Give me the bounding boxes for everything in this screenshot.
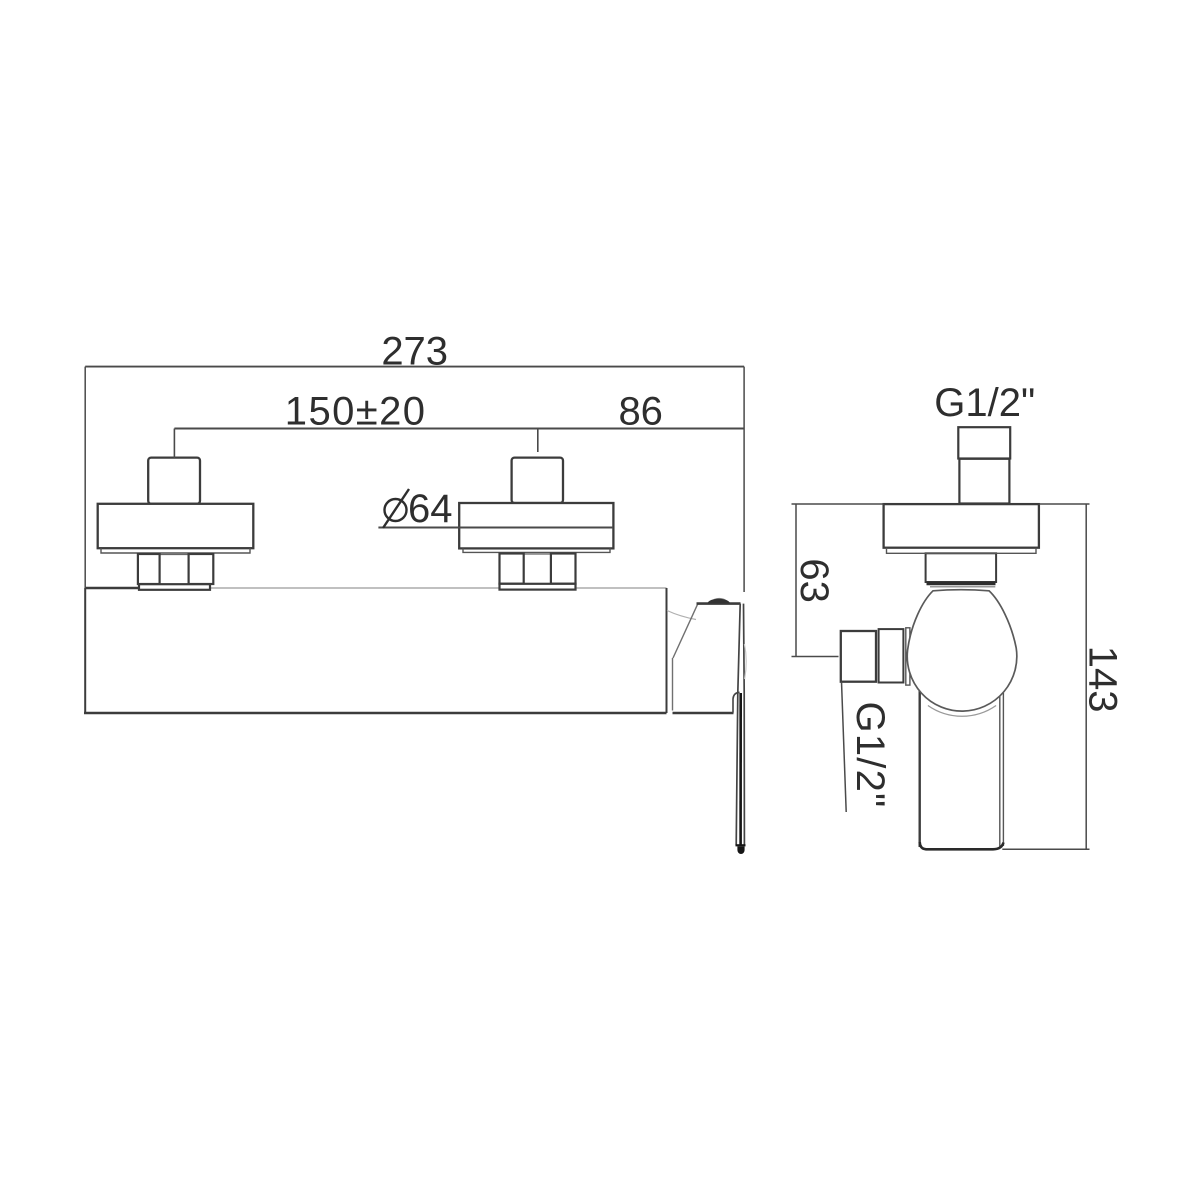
svg-text:64: 64 bbox=[408, 487, 453, 531]
svg-text:150±20: 150±20 bbox=[285, 390, 427, 434]
svg-text:273: 273 bbox=[381, 330, 448, 374]
svg-text:143: 143 bbox=[1081, 646, 1125, 713]
svg-text:G1/2": G1/2" bbox=[848, 702, 892, 809]
svg-text:86: 86 bbox=[618, 390, 663, 434]
svg-text:G1/2": G1/2" bbox=[934, 381, 1035, 425]
svg-text:63: 63 bbox=[792, 558, 836, 603]
